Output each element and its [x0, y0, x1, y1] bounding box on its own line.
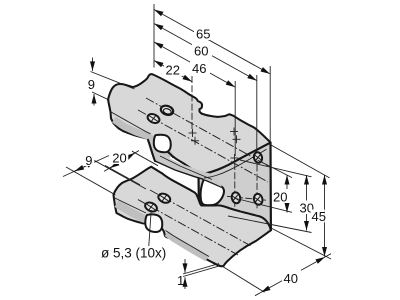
svg-text:22: 22 [166, 63, 180, 78]
svg-text:9: 9 [85, 153, 92, 168]
svg-text:9: 9 [88, 77, 95, 92]
svg-text:40: 40 [284, 271, 298, 286]
svg-text:20: 20 [112, 151, 126, 166]
svg-text:46: 46 [192, 61, 206, 76]
svg-text:20: 20 [273, 190, 287, 205]
svg-text:ø 5,3 (10x): ø 5,3 (10x) [101, 246, 166, 261]
svg-text:1: 1 [177, 273, 184, 288]
svg-text:45: 45 [312, 209, 326, 224]
svg-text:65: 65 [196, 27, 210, 42]
svg-text:60: 60 [194, 44, 208, 59]
